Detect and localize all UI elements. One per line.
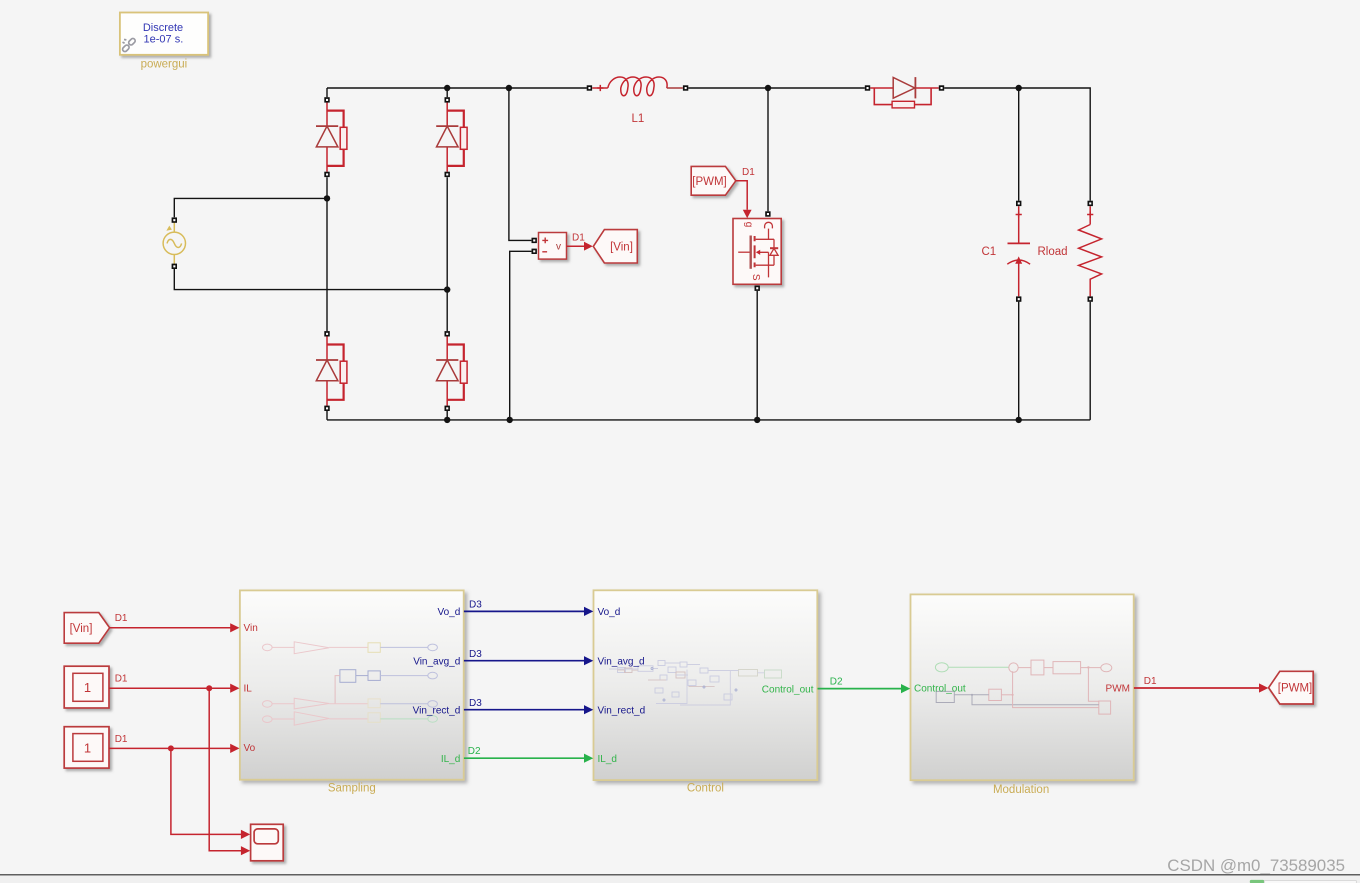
svg-text:Vin: Vin [244,623,258,634]
svg-text:Control_out: Control_out [762,684,814,695]
svg-text:1e-07 s.: 1e-07 s. [144,34,184,46]
svg-text:IL_d: IL_d [441,754,460,765]
svg-text:D1: D1 [115,734,128,745]
svg-text:1: 1 [84,740,91,755]
svg-text:Rload: Rload [1038,246,1068,258]
svg-text:[PWM]: [PWM] [1278,683,1313,695]
svg-text:IL_d: IL_d [598,754,617,765]
svg-text:D3: D3 [469,698,482,709]
svg-text:Control: Control [687,783,724,795]
svg-text:[PWM]: [PWM] [692,176,727,188]
svg-text:Control_out: Control_out [914,684,966,695]
svg-text:C1: C1 [982,246,997,258]
svg-text:D3: D3 [469,649,482,660]
svg-text:Vin_avg_d: Vin_avg_d [413,656,460,667]
svg-text:D2: D2 [830,676,843,687]
svg-text:L1: L1 [632,113,645,125]
svg-text:D1: D1 [1144,676,1157,687]
svg-text:D1: D1 [742,167,755,178]
svg-text:Vin_rect_d: Vin_rect_d [598,705,646,716]
svg-text:1: 1 [84,680,91,695]
svg-text:IL: IL [244,684,253,695]
svg-text:D3: D3 [469,600,482,611]
svg-text:Vo: Vo [244,743,256,754]
svg-text:Discrete: Discrete [143,22,183,34]
svg-text:g: g [743,222,754,228]
svg-text:powergui: powergui [141,59,188,71]
svg-text:[Vin]: [Vin] [610,241,633,253]
svg-text:Vo_d: Vo_d [437,607,460,618]
svg-text:CSDN @m0_73589035: CSDN @m0_73589035 [1167,856,1345,875]
svg-text:D1: D1 [115,613,128,624]
svg-text:D1: D1 [572,232,585,243]
svg-text:Modulation: Modulation [993,784,1049,796]
svg-text:Sampling: Sampling [328,783,376,795]
svg-text:D2: D2 [468,746,481,757]
svg-text:D1: D1 [115,674,128,685]
svg-text:[Vin]: [Vin] [70,623,93,635]
svg-text:PWM: PWM [1106,684,1130,695]
svg-text:Vin_avg_d: Vin_avg_d [598,656,645,667]
svg-text:S: S [750,274,761,281]
svg-text:v: v [556,242,561,253]
svg-text:Vin_rect_d: Vin_rect_d [413,705,461,716]
svg-text:Vo_d: Vo_d [598,607,621,618]
